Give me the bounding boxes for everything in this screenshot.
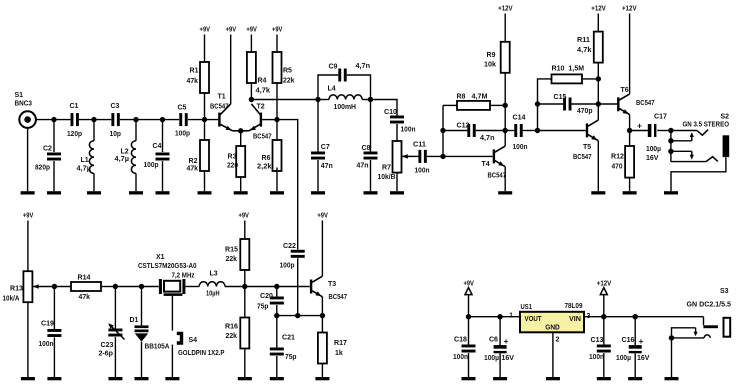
- svg-text:470p: 470p: [577, 108, 593, 115]
- capacitor C21 75p: [270, 316, 297, 377]
- ground: [591, 191, 605, 194]
- node: [596, 101, 601, 106]
- svg-text:+9V: +9V: [272, 27, 283, 34]
- ground: [234, 191, 248, 194]
- svg-text:T5: T5: [583, 144, 591, 151]
- svg-text:GN DC2.1/5.5: GN DC2.1/5.5: [687, 302, 732, 309]
- svg-text:C4: C4: [153, 143, 162, 150]
- ground: [623, 191, 637, 194]
- resistor R3 220: [227, 131, 245, 191]
- svg-text:R10: R10: [552, 66, 565, 73]
- node: [139, 284, 144, 289]
- svg-text:78L09: 78L09: [565, 303, 583, 310]
- header S4 GOLDPIN 1X2.P: [172, 333, 224, 377]
- svg-text:C22: C22: [283, 243, 296, 250]
- svg-text:100p: 100p: [175, 131, 190, 138]
- svg-text:+9V: +9V: [317, 213, 328, 220]
- svg-text:R3: R3: [228, 154, 237, 161]
- svg-text:4,7µ: 4,7µ: [115, 156, 130, 163]
- svg-text:10k: 10k: [484, 62, 496, 69]
- node: [91, 117, 96, 122]
- svg-text:C18: C18: [454, 337, 467, 344]
- wire: [538, 79, 552, 131]
- wire: [598, 103, 617, 105]
- svg-text:22k: 22k: [226, 256, 238, 263]
- power +9V: [23, 213, 34, 272]
- svg-text:GOLDPIN 1X2.P: GOLDPIN 1X2.P: [178, 350, 225, 357]
- node: [368, 97, 373, 102]
- svg-text:100µ: 100µ: [646, 146, 661, 153]
- transistor T5 BC547: [538, 120, 599, 191]
- svg-text:22k: 22k: [283, 78, 295, 85]
- resistor R8 4,7M: [443, 94, 505, 110]
- svg-text:+9V: +9V: [200, 27, 211, 34]
- node: [320, 313, 325, 318]
- capacitor C1 120p: [67, 103, 82, 138]
- svg-text:10k/B: 10k/B: [378, 174, 396, 181]
- node: [668, 138, 673, 143]
- svg-text:C16: C16: [622, 337, 635, 344]
- wire: [262, 119, 277, 121]
- svg-text:C10: C10: [384, 109, 397, 116]
- resonator X1 CSTLS7M20G53-A0 7,2 MHz: [138, 254, 199, 331]
- wire: [188, 119, 219, 121]
- node: [133, 117, 138, 122]
- capacitor C7 47n: [311, 100, 333, 192]
- svg-text:100n: 100n: [453, 354, 468, 361]
- svg-text:2,2k: 2,2k: [257, 164, 272, 171]
- wire: [597, 79, 599, 120]
- node: [466, 314, 471, 319]
- power +9V: [272, 27, 283, 53]
- ground: [270, 377, 284, 380]
- node: [440, 128, 445, 133]
- svg-text:1,5M: 1,5M: [569, 66, 585, 73]
- svg-text:100µ: 100µ: [484, 355, 499, 362]
- svg-text:C1: C1: [70, 103, 79, 110]
- svg-text:75p: 75p: [285, 354, 297, 361]
- node: [669, 335, 674, 340]
- svg-text:+12V: +12V: [498, 6, 513, 13]
- ground: [498, 191, 512, 194]
- svg-text:+12V: +12V: [591, 6, 606, 13]
- node: [596, 76, 601, 81]
- svg-text:4,7n: 4,7n: [480, 135, 495, 142]
- power +9V: [246, 27, 257, 53]
- svg-text:10p: 10p: [110, 131, 122, 138]
- power +9V: [463, 281, 474, 317]
- svg-text:47k: 47k: [187, 78, 199, 85]
- wire: [469, 316, 521, 318]
- svg-text:C6: C6: [489, 337, 498, 344]
- svg-text:+: +: [504, 336, 509, 346]
- svg-text:C20: C20: [260, 293, 273, 300]
- svg-text:C19: C19: [41, 321, 54, 328]
- svg-text:R7: R7: [382, 165, 391, 172]
- wire: [79, 119, 111, 121]
- svg-text:BC547: BC547: [329, 294, 348, 301]
- svg-text:C3: C3: [111, 103, 120, 110]
- svg-text:10k/A: 10k/A: [3, 296, 20, 303]
- node: [51, 117, 56, 122]
- svg-text:+: +: [639, 336, 644, 346]
- capacitor C8 47n: [357, 100, 378, 192]
- resistor R6 2,2k: [257, 120, 282, 192]
- svg-text:BC547: BC547: [573, 154, 592, 161]
- capacitor C14 100n: [505, 114, 537, 150]
- svg-text:+9V: +9V: [23, 213, 34, 220]
- svg-text:R17: R17: [334, 340, 347, 347]
- ground: [165, 377, 179, 380]
- ground: [47, 377, 61, 380]
- svg-text:VOUT: VOUT: [525, 314, 543, 323]
- svg-text:C8: C8: [362, 145, 371, 152]
- node: [497, 314, 502, 319]
- resistor R4 4,7k: [247, 52, 270, 100]
- svg-text:R11: R11: [577, 37, 590, 44]
- svg-text:T1: T1: [218, 94, 226, 101]
- node: [668, 149, 673, 154]
- transistor T6 BC547: [617, 87, 654, 131]
- capacitor C22 100p: [280, 243, 305, 316]
- svg-text:R4: R4: [258, 78, 267, 85]
- ground: [135, 377, 149, 380]
- svg-text:R1: R1: [190, 68, 199, 75]
- svg-text:S1: S1: [15, 92, 24, 99]
- svg-text:L1: L1: [81, 157, 89, 164]
- node: [535, 101, 540, 106]
- svg-text:L3: L3: [210, 271, 218, 278]
- svg-text:4,7k: 4,7k: [577, 47, 592, 54]
- svg-text:R16: R16: [225, 323, 238, 330]
- ground: [270, 191, 284, 194]
- varicap D1 BB105A: [130, 287, 170, 378]
- ground: [129, 191, 143, 194]
- svg-text:GN 3.5 STEREO: GN 3.5 STEREO: [683, 121, 730, 128]
- ground: [315, 377, 329, 380]
- svg-text:C12: C12: [457, 123, 470, 130]
- inductor L4 100mH: [318, 86, 371, 112]
- ground: [156, 191, 170, 194]
- regulator US1 78L09: [509, 303, 590, 377]
- svg-text:C17: C17: [654, 114, 667, 121]
- svg-text:C23: C23: [101, 342, 114, 349]
- svg-text:C5: C5: [178, 105, 187, 112]
- ground: [628, 377, 642, 380]
- svg-text:470: 470: [612, 164, 623, 171]
- svg-text:220: 220: [227, 163, 238, 170]
- node: [52, 284, 57, 289]
- resistor R14 47k: [54, 274, 115, 301]
- svg-text:16V: 16V: [646, 155, 659, 162]
- svg-text:R12: R12: [611, 154, 624, 161]
- resistor R2 47k: [187, 120, 210, 192]
- svg-text:2: 2: [556, 337, 560, 344]
- svg-text:T6: T6: [621, 87, 629, 94]
- svg-text:CSTLS7M20G53-A0: CSTLS7M20G53-A0: [138, 263, 197, 270]
- svg-text:C13: C13: [591, 337, 604, 344]
- resistor R5 22k: [273, 52, 295, 120]
- capacitor C2 820p: [35, 120, 61, 192]
- svg-text:BB105A: BB105A: [145, 343, 170, 350]
- wire: [36, 119, 71, 121]
- ground: [311, 191, 325, 194]
- node: [503, 103, 508, 108]
- svg-text:R8: R8: [457, 94, 466, 101]
- capacitor C5 100p: [175, 105, 190, 138]
- resistor R12 470: [611, 131, 634, 192]
- potentiometer R13 10k/A: [3, 271, 55, 377]
- capacitor C13 100n: [589, 317, 611, 377]
- power +12V: [591, 6, 606, 32]
- ground: [47, 191, 61, 194]
- svg-text:4,7M: 4,7M: [472, 94, 488, 101]
- node: [535, 128, 540, 133]
- ground: [493, 377, 507, 380]
- node: [274, 284, 279, 289]
- svg-text:100n: 100n: [415, 168, 430, 175]
- svg-text:US1: US1: [521, 304, 533, 311]
- svg-text:X1: X1: [156, 254, 165, 261]
- trimmer C23 2-6p: [99, 287, 125, 378]
- inductor L2 4,7u: [115, 120, 137, 192]
- power +12V: [622, 6, 637, 95]
- svg-text:1: 1: [509, 313, 513, 320]
- svg-text:R13: R13: [10, 286, 23, 293]
- node: [113, 284, 118, 289]
- svg-text:BC547: BC547: [636, 100, 655, 107]
- capacitor C11 100n: [413, 141, 443, 174]
- svg-text:100n: 100n: [401, 126, 416, 133]
- node: [274, 313, 279, 318]
- node: [160, 117, 165, 122]
- transistor T2 BC547: [241, 104, 272, 141]
- resistor R1 47k: [187, 62, 210, 120]
- svg-text:1k: 1k: [335, 350, 343, 357]
- svg-text:C21: C21: [282, 335, 295, 342]
- svg-text:4,7µ: 4,7µ: [77, 165, 92, 172]
- ground: [546, 377, 560, 380]
- connector S2 GN 3.5 STEREO: [671, 114, 730, 192]
- svg-text:120p: 120p: [67, 131, 82, 138]
- svg-text:100n: 100n: [513, 144, 528, 151]
- svg-text:+9V: +9V: [246, 27, 257, 34]
- svg-text:BC547: BC547: [488, 172, 507, 179]
- wire: [120, 119, 179, 121]
- svg-text:16V: 16V: [502, 355, 515, 362]
- svg-text:L4: L4: [328, 86, 336, 93]
- capacitor C17 100u 16V: [630, 114, 671, 163]
- wire: [277, 315, 323, 317]
- svg-text:BC547: BC547: [253, 133, 272, 140]
- svg-text:10µH: 10µH: [206, 290, 220, 297]
- ground: [664, 191, 678, 194]
- power +9V: [200, 27, 211, 63]
- svg-text:100n: 100n: [589, 354, 604, 361]
- svg-text:+: +: [637, 121, 642, 131]
- power +9V: [238, 213, 249, 240]
- svg-text:2-6p: 2-6p: [99, 350, 114, 357]
- node: [274, 117, 279, 122]
- resistor R15 22k: [225, 239, 249, 287]
- svg-text:T3: T3: [328, 281, 336, 288]
- node: [668, 128, 673, 133]
- resistor R11 4,7k: [577, 32, 603, 79]
- power +12V: [597, 281, 612, 317]
- svg-text:47n: 47n: [321, 163, 333, 170]
- svg-text:R15: R15: [225, 246, 238, 253]
- node: [633, 314, 638, 319]
- svg-text:4,7n: 4,7n: [356, 63, 371, 70]
- svg-text:100mH: 100mH: [334, 104, 357, 111]
- svg-text:C11: C11: [413, 141, 426, 148]
- svg-text:C9: C9: [329, 64, 338, 71]
- node: [202, 117, 207, 122]
- node: [440, 154, 445, 159]
- wire: [115, 286, 158, 288]
- svg-text:22k: 22k: [226, 333, 238, 340]
- node: [315, 97, 320, 102]
- capacitor C19 100n: [39, 287, 62, 378]
- resistor R10 1,5M: [552, 66, 599, 84]
- svg-text:S3: S3: [720, 288, 729, 295]
- ground: [21, 191, 35, 194]
- inductor L3 10uH: [199, 271, 245, 298]
- capacitor C18 100n: [453, 317, 476, 377]
- transistor T4 BC547: [443, 131, 506, 192]
- svg-text:+12V: +12V: [597, 281, 612, 288]
- capacitor C6 100u 16V: [484, 317, 514, 377]
- ground: [597, 377, 611, 380]
- transistor T3 BC547: [310, 276, 347, 315]
- svg-text:16V: 16V: [637, 355, 650, 362]
- power +12V: [498, 6, 513, 42]
- node: [503, 128, 508, 133]
- node: [238, 128, 243, 133]
- svg-text:GND: GND: [545, 323, 560, 332]
- potentiometer R7 10k/B: [378, 141, 415, 191]
- node: [249, 97, 254, 102]
- svg-text:+9V: +9V: [238, 213, 249, 220]
- svg-text:S2: S2: [721, 114, 730, 121]
- ground: [665, 377, 679, 380]
- capacitor C15 470p: [538, 94, 599, 115]
- svg-text:C14: C14: [513, 114, 526, 121]
- node: [627, 128, 632, 133]
- node: [601, 314, 606, 319]
- ground: [198, 191, 212, 194]
- svg-text:R5: R5: [283, 68, 292, 75]
- resistor R17 1k: [318, 316, 347, 377]
- ground: [87, 191, 101, 194]
- ground: [462, 377, 476, 380]
- ground: [108, 377, 122, 380]
- capacitor C3 10p: [110, 103, 122, 138]
- svg-text:+9V: +9V: [226, 27, 237, 34]
- svg-text:R14: R14: [78, 274, 91, 281]
- svg-text:47n: 47n: [357, 162, 369, 169]
- resistor R16 22k: [225, 287, 249, 378]
- svg-text:100µ: 100µ: [616, 355, 631, 362]
- node: [295, 313, 300, 318]
- capacitor C20 75p: [257, 287, 284, 316]
- connector S1 BNC3: [15, 92, 36, 191]
- svg-text:47k: 47k: [187, 166, 199, 173]
- svg-text:C15: C15: [554, 94, 567, 101]
- svg-text:L2: L2: [121, 149, 129, 156]
- power +9V: [317, 213, 328, 277]
- capacitor C4 100p: [144, 120, 170, 192]
- svg-text:T4: T4: [482, 161, 490, 168]
- svg-text:4,7k: 4,7k: [256, 88, 271, 95]
- svg-text:C7: C7: [321, 144, 330, 151]
- wire: [245, 286, 310, 288]
- wire: [504, 105, 506, 130]
- svg-text:R9: R9: [487, 52, 496, 59]
- ground: [390, 191, 404, 194]
- svg-text:+12V: +12V: [622, 6, 637, 13]
- wire: [442, 105, 444, 156]
- svg-text:R2: R2: [189, 158, 198, 165]
- inductor L1 4,7u: [77, 120, 95, 192]
- ground: [364, 191, 378, 194]
- capacitor C16 100u 16V: [616, 317, 650, 377]
- svg-text:820p: 820p: [35, 164, 50, 171]
- node: [242, 284, 247, 289]
- ground: [21, 377, 35, 380]
- svg-text:100p: 100p: [144, 162, 159, 169]
- svg-text:VIN: VIN: [569, 314, 581, 323]
- ground: [238, 377, 252, 380]
- svg-text:47k: 47k: [79, 294, 91, 301]
- resistor R9 10k: [484, 42, 510, 106]
- svg-text:D1: D1: [130, 317, 139, 324]
- wire: [584, 316, 704, 318]
- svg-text:100p: 100p: [280, 262, 295, 269]
- connector S3 GN DC2.1/5.5: [672, 288, 732, 377]
- svg-text:75p: 75p: [257, 303, 269, 310]
- capacitor C10 100n: [371, 100, 416, 142]
- svg-text:S4: S4: [189, 337, 198, 344]
- svg-text:+9V: +9V: [463, 281, 474, 288]
- capacitor C9 4,7n: [318, 63, 371, 100]
- wire: [251, 99, 318, 101]
- svg-text:BNC3: BNC3: [15, 101, 33, 108]
- transistor T1 BC547: [210, 94, 241, 131]
- svg-text:100n: 100n: [39, 341, 54, 348]
- svg-text:R6: R6: [262, 155, 271, 162]
- svg-text:T2: T2: [257, 104, 265, 111]
- svg-text:C2: C2: [43, 146, 52, 153]
- svg-text:7,2 MHz: 7,2 MHz: [172, 273, 195, 280]
- wire: [277, 120, 298, 250]
- power +9V: [226, 27, 237, 105]
- capacitor C12 4,7n: [443, 123, 505, 143]
